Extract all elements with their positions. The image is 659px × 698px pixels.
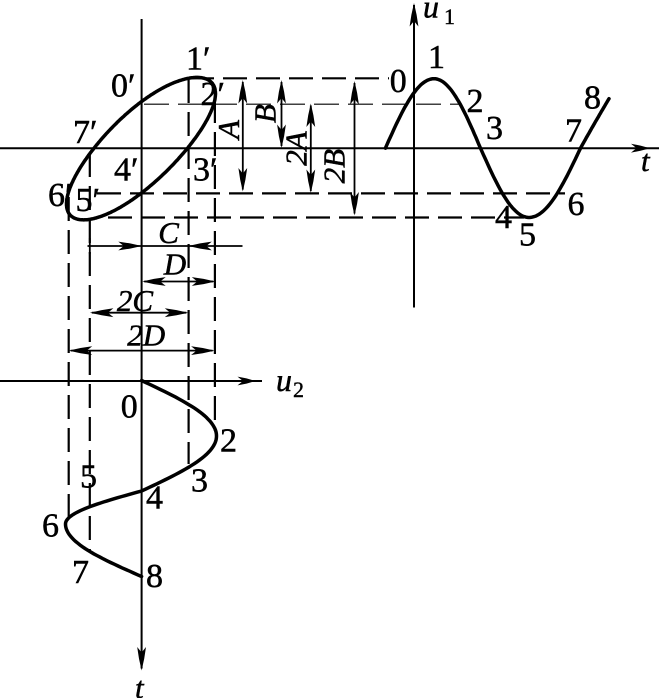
u1 axis top arrowhead — [410, 3, 419, 27]
dimension arrow B line — [281, 82, 283, 146]
svg-text:3: 3 — [191, 463, 208, 500]
u1 sine wave trace — [385, 79, 609, 218]
dimension arrow 2A line — [310, 106, 312, 192]
svg-text:0: 0 — [390, 63, 407, 100]
dimension arrow B upper head — [277, 80, 286, 104]
dashed vertical line x=90 through 5-prime, 7-prime and points 5, 7 — [89, 153, 91, 551]
dashed vertical line x=189 through 1-prime, 3-prime and point 3 — [188, 79, 190, 464]
svg-text:0: 0 — [121, 388, 138, 425]
dimension arrow 2B line — [354, 83, 356, 214]
dimension arrow C right-pointing head at axis — [118, 242, 142, 251]
svg-text:2: 2 — [220, 423, 237, 460]
svg-text:A: A — [211, 119, 246, 141]
u2 axis right arrowhead — [238, 377, 256, 386]
svg-text:1: 1 — [428, 39, 445, 76]
ellipse Lissajous trace — [67, 77, 216, 220]
dashed vertical line x=215 through 2-prime and point 2 — [214, 99, 216, 431]
dimension arrow A upper head — [238, 80, 247, 104]
dimension arrow D left head — [142, 277, 166, 286]
dimension arrow 2D line — [71, 350, 213, 352]
svg-text:7′: 7′ — [73, 114, 97, 151]
vertical axis of ellipse plot and u2 time axis — [141, 19, 143, 669]
dashed level line y=193 through points 4-prime, 6-prime and 4, 6 — [97, 192, 565, 194]
svg-text:2A: 2A — [279, 130, 314, 166]
svg-text:4: 4 — [495, 199, 512, 236]
dashed level line y=217 through points 5-prime and 5 — [108, 216, 524, 218]
svg-text:5: 5 — [519, 217, 536, 254]
t axis right arrowhead — [631, 144, 650, 153]
dimension arrow 2D right head — [191, 346, 215, 355]
svg-text:D: D — [163, 246, 186, 281]
dimension arrow 2C left head — [90, 308, 114, 317]
svg-text:4: 4 — [146, 480, 163, 517]
dimension arrow C left-pointing head at x=188 — [188, 242, 212, 251]
svg-text:0′: 0′ — [111, 68, 135, 105]
svg-text:2: 2 — [467, 83, 484, 120]
dimension arrow D right head — [192, 277, 216, 286]
dimension arrow 2B lower head — [350, 192, 359, 216]
svg-text:5: 5 — [80, 458, 97, 495]
dimension arrow 2A upper head — [306, 104, 315, 128]
svg-text:2′: 2′ — [201, 76, 225, 113]
dimension arrow A line — [242, 82, 244, 190]
svg-text:1′: 1′ — [186, 41, 210, 78]
svg-text:t: t — [135, 670, 145, 698]
dimension arrow 2D left head — [69, 346, 93, 355]
svg-text:8: 8 — [584, 79, 601, 116]
horizontal t axis of upper plots — [0, 147, 659, 149]
svg-text:2B: 2B — [317, 149, 352, 184]
svg-text:6′: 6′ — [48, 177, 72, 214]
svg-text:7: 7 — [72, 554, 89, 591]
svg-text:2: 2 — [293, 377, 304, 402]
u2 axis horizontal — [0, 380, 262, 382]
svg-text:B: B — [248, 104, 283, 123]
svg-text:3′: 3′ — [193, 152, 217, 189]
dimension arrow A lower head — [238, 168, 247, 192]
dashed level line y=78 through points 1 and 1-prime — [190, 77, 389, 79]
dashed vertical line x=69 through 6-prime and point 6 — [68, 197, 70, 524]
svg-text:u: u — [423, 0, 439, 25]
svg-text:5′: 5′ — [76, 182, 100, 219]
svg-text:C: C — [158, 215, 179, 250]
dimension arrow C left tick — [89, 238, 91, 254]
svg-text:t: t — [641, 143, 651, 178]
svg-text:7: 7 — [565, 113, 582, 150]
svg-text:8: 8 — [146, 558, 163, 595]
dashed level line y=104 through points 0, 0-prime, 2, 2-prime — [144, 103, 462, 105]
svg-text:6: 6 — [568, 186, 585, 223]
u1 axis vertical — [413, 5, 415, 308]
svg-text:2D: 2D — [127, 317, 165, 352]
svg-text:3: 3 — [486, 110, 503, 147]
dimension arrow 2A lower head — [306, 170, 315, 194]
dimension arrow 2B upper head — [350, 81, 359, 105]
dimension arrow 2C line — [92, 312, 186, 314]
svg-text:6: 6 — [42, 507, 59, 544]
dimension arrow 2C right head — [165, 308, 189, 317]
svg-text:2C: 2C — [117, 283, 154, 318]
dimension arrow C line — [88, 245, 243, 247]
dimension arrow B lower head — [277, 125, 286, 149]
svg-text:4′: 4′ — [114, 152, 138, 189]
dimension arrow D line — [144, 281, 213, 283]
svg-text:u: u — [276, 362, 292, 398]
vertical time axis bottom arrowhead — [137, 647, 146, 671]
svg-text:1: 1 — [444, 4, 455, 29]
u2 sine wave trace — [66, 381, 217, 577]
